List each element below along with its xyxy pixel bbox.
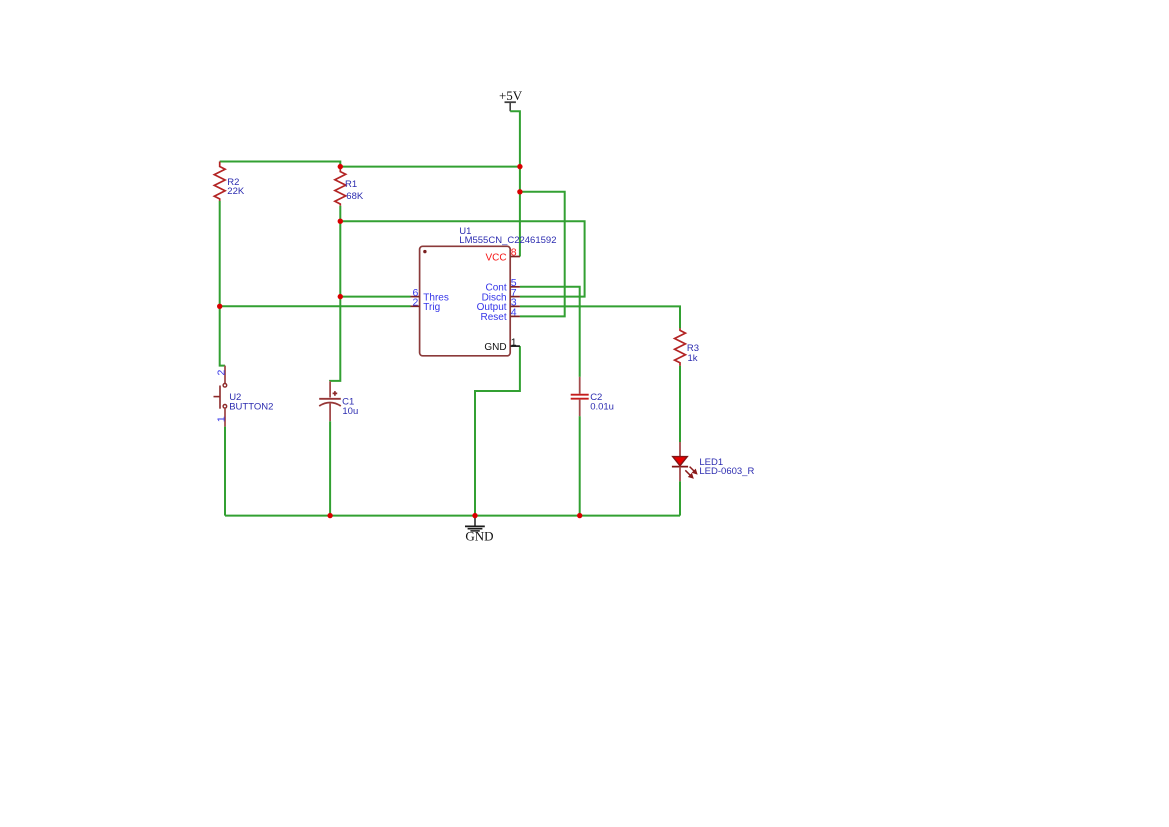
svg-text:Trig: Trig	[423, 302, 440, 313]
junction node reset branch	[517, 189, 522, 194]
wire C2 bottom to bus	[579, 416, 581, 515]
wire R1 bottom node to Disch pin 7	[340, 221, 584, 296]
pin 8 stub	[511, 256, 520, 258]
pin 1 stub (GND, black)	[511, 345, 520, 347]
svg-text:10u: 10u	[342, 406, 358, 417]
resistor R1	[335, 167, 364, 221]
pin 5 stub	[511, 286, 520, 288]
resistor R3	[675, 328, 699, 365]
svg-text:22K: 22K	[227, 186, 245, 197]
junction node C2 bus	[577, 513, 582, 518]
svg-text:1: 1	[511, 336, 517, 348]
svg-text:LED-0603_R: LED-0603_R	[699, 466, 754, 477]
svg-text:2: 2	[412, 297, 418, 309]
wire top rail R1 node to +5V node	[340, 166, 520, 168]
wire top rail from R2 top with jog at R1	[220, 162, 341, 167]
junction node Thres	[338, 294, 343, 299]
wire Cont pin 5 to C2 top	[520, 287, 580, 377]
junction node +5V rail top	[517, 164, 522, 169]
svg-text:R1: R1	[345, 179, 357, 190]
svg-text:+5V: +5V	[499, 88, 523, 103]
capacitor C1 (polarized)	[319, 381, 358, 515]
junction node Trig	[217, 304, 222, 309]
wire +5V flag to VCC rail corner	[510, 111, 520, 166]
junction node R1 top	[338, 164, 343, 169]
junction node C1 bus	[327, 513, 332, 518]
wire R2 bottom down to Trig node	[219, 201, 221, 306]
wire Trig node to pin 2	[220, 305, 411, 307]
power flag +5V	[499, 88, 523, 111]
svg-text:0.01u: 0.01u	[590, 401, 614, 412]
wire LED bottom to bus corner	[679, 481, 681, 515]
wire GND pin 1 to ground node	[475, 346, 520, 515]
wire VCC rail down to U1 pin 8	[519, 167, 521, 257]
ground symbol GND	[465, 516, 494, 543]
svg-text:2: 2	[216, 370, 228, 376]
junction node GND bus	[472, 513, 477, 518]
svg-text:LM555CN_C22461592: LM555CN_C22461592	[459, 235, 556, 246]
pin 3 stub	[511, 305, 520, 307]
wire VCC node to Reset pin 4	[520, 192, 565, 317]
capacitor C2	[571, 377, 614, 416]
pin 2 stub	[411, 305, 420, 307]
svg-text:1k: 1k	[688, 353, 698, 364]
wire Output pin 3 to R3 top	[520, 306, 680, 328]
svg-text:VCC: VCC	[485, 253, 506, 264]
svg-text:GND: GND	[484, 342, 506, 353]
wire R1 bottom node down to C1 jog	[330, 221, 340, 381]
wire Trig node down to button jog	[220, 306, 225, 365]
svg-text:Reset: Reset	[480, 312, 506, 323]
svg-text:4: 4	[511, 307, 517, 319]
wire Thres pin 6	[340, 296, 410, 298]
op IC U1 LM555	[411, 226, 557, 356]
wire ground bus	[225, 515, 680, 517]
pin 6 stub	[411, 296, 420, 298]
svg-text:1: 1	[216, 416, 228, 422]
resistor R2	[214, 162, 245, 201]
pin 7 stub	[511, 296, 520, 298]
LED LED1	[672, 442, 755, 481]
svg-text:68K: 68K	[346, 191, 364, 202]
svg-text:8: 8	[511, 247, 517, 259]
pushbutton U2	[214, 366, 274, 427]
junction node R1 bottom	[338, 219, 343, 224]
svg-text:BUTTON2: BUTTON2	[229, 401, 273, 412]
svg-text:GND: GND	[465, 529, 493, 544]
wire R3 bottom to LED top	[679, 366, 681, 442]
wire button pin 1 to ground bus	[224, 427, 226, 516]
pin 4 stub	[511, 315, 520, 317]
